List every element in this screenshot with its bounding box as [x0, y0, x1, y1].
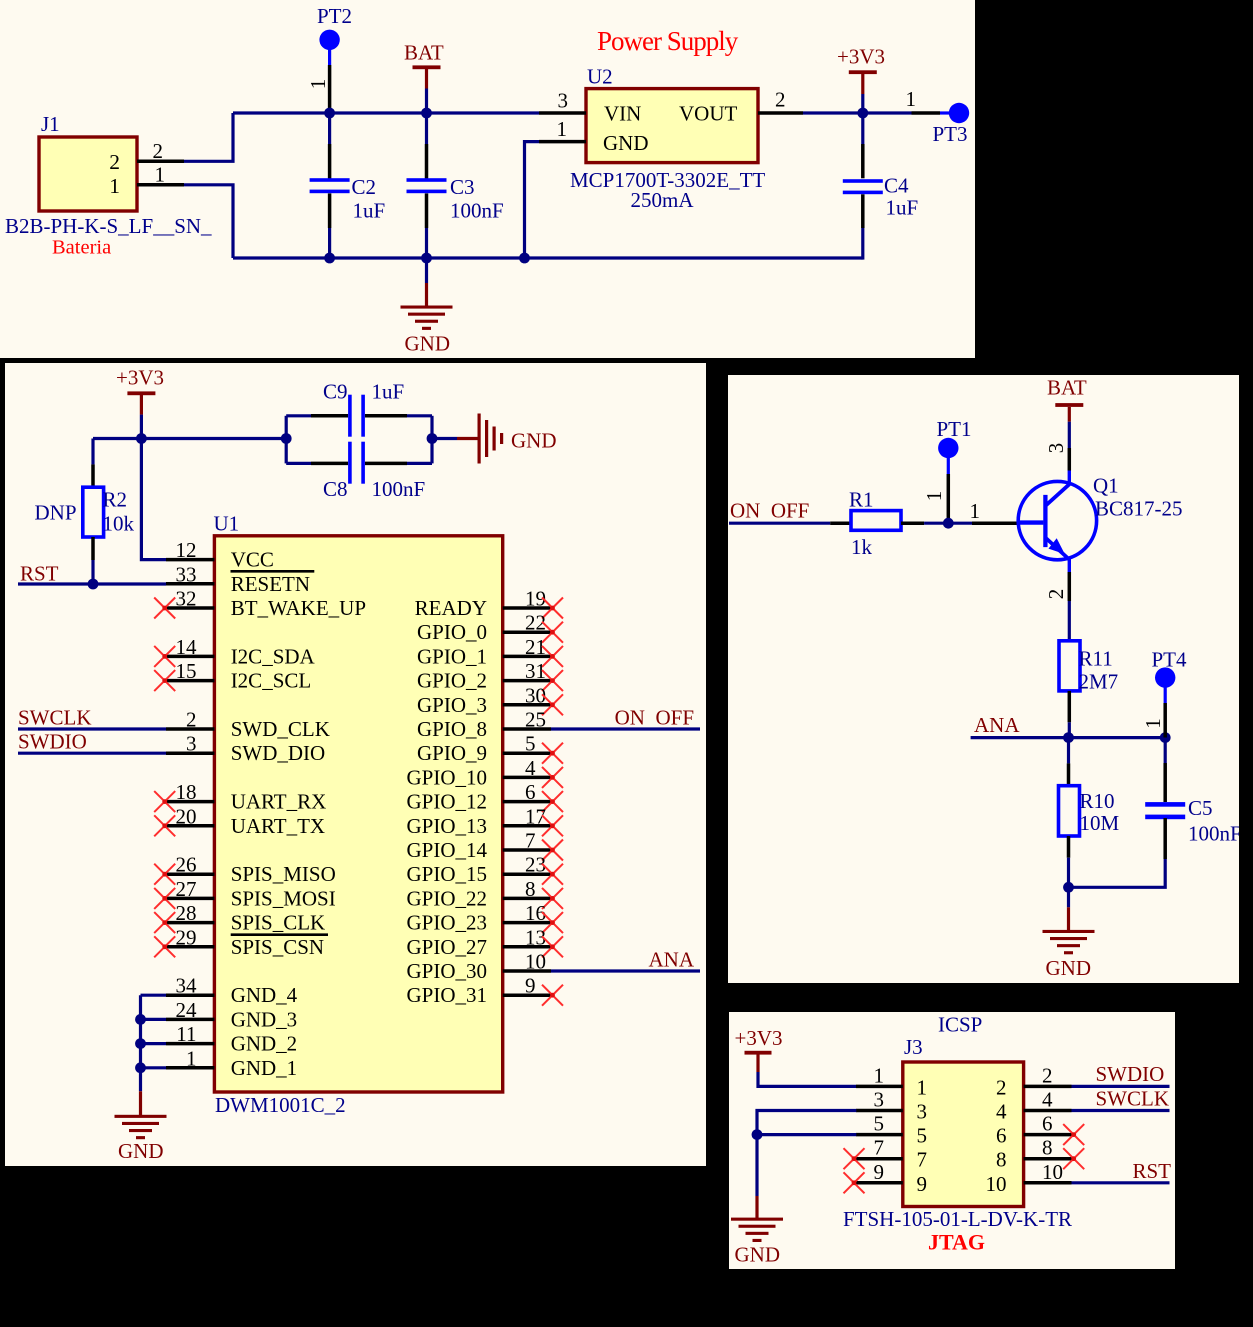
svg-text:GPIO_23: GPIO_23: [406, 911, 487, 935]
pin 30 of U1 (GPIO_3): [503, 703, 551, 707]
svg-text:4: 4: [525, 756, 536, 780]
svg-text:1: 1: [906, 87, 917, 111]
svg-text:SWCLK: SWCLK: [18, 706, 92, 730]
pin 6 of U1 (GPIO_12): [503, 800, 551, 804]
sheet: MCU section: [5, 363, 706, 1166]
wire C3 upper: [425, 113, 428, 144]
svg-text:RST: RST: [20, 562, 59, 586]
svg-text:2: 2: [1044, 589, 1068, 600]
no-connect X on pin 5: [542, 743, 563, 764]
junction GND node (panel3): [1063, 882, 1074, 893]
junction RST / R2: [88, 579, 99, 590]
svg-text:10M: 10M: [1080, 811, 1120, 835]
svg-text:C8: C8: [323, 477, 348, 501]
svg-text:6: 6: [996, 1124, 1007, 1148]
svg-text:GPIO_3: GPIO_3: [417, 693, 487, 717]
pin 15 of U1 (I2C_SCL): [166, 679, 214, 683]
svg-text:BT_WAKE_UP: BT_WAKE_UP: [231, 596, 366, 620]
svg-text:8: 8: [996, 1148, 1007, 1172]
svg-text:SWDIO: SWDIO: [18, 730, 87, 754]
svg-text:100nF: 100nF: [372, 477, 426, 501]
wire ANA (panel2): [551, 969, 700, 972]
svg-text:6: 6: [525, 780, 536, 804]
svg-text:4: 4: [1042, 1088, 1053, 1112]
pin 33 of U1 (RESETN): [166, 582, 214, 586]
svg-text:VCC: VCC: [231, 548, 274, 572]
svg-text:7: 7: [525, 829, 536, 853]
pin 2 of U2 (VOUT): [758, 111, 803, 115]
ground symbol GND (panel2 bottom): [115, 1115, 167, 1118]
svg-text:+3V3: +3V3: [837, 45, 885, 69]
svg-text:7: 7: [917, 1148, 928, 1172]
pin 23 of U1 (GPIO_15): [503, 872, 551, 876]
pin 5 of J3: [856, 1133, 903, 1137]
pin 34 of U1 (GND_4): [166, 993, 214, 997]
svg-text:GPIO_8: GPIO_8: [417, 717, 487, 741]
svg-text:U2: U2: [587, 65, 613, 89]
svg-text:Q1: Q1: [1093, 474, 1119, 498]
pin 19 of U1 (READY): [503, 606, 551, 610]
svg-text:GND_3: GND_3: [231, 1007, 298, 1031]
svg-text:10: 10: [525, 950, 546, 974]
pin 3 of J3: [856, 1109, 903, 1113]
svg-text:GPIO_27: GPIO_27: [406, 935, 487, 959]
wire SWCLK: [18, 727, 166, 730]
svg-text:UART_TX: UART_TX: [231, 814, 325, 838]
pin 31 of U1 (GPIO_2): [503, 679, 551, 683]
no-connect X on pin 8: [1063, 1148, 1084, 1169]
svg-text:2: 2: [186, 708, 197, 732]
wire R10 top: [1067, 738, 1070, 764]
svg-text:GND_4: GND_4: [231, 983, 298, 1007]
junction ANA / C5 / PT4: [1160, 732, 1171, 743]
svg-text:1uF: 1uF: [886, 196, 919, 220]
svg-text:34: 34: [176, 974, 198, 998]
svg-text:Bateria: Bateria: [52, 237, 111, 259]
wire RST (panel4): [1072, 1181, 1170, 1184]
junction GND_1: [135, 1062, 146, 1073]
svg-text:27: 27: [176, 877, 197, 901]
svg-text:1uF: 1uF: [353, 199, 386, 223]
resistor R11: [1059, 641, 1080, 691]
no-connect X on pin 19: [542, 598, 563, 619]
svg-text:2M7: 2M7: [1079, 670, 1119, 694]
no-connect X on pin 20: [154, 815, 175, 836]
junction ANA / R10: [1063, 732, 1074, 743]
wire cap block right: [430, 416, 433, 464]
svg-text:GND: GND: [1046, 956, 1092, 980]
svg-text:PT4: PT4: [1152, 648, 1188, 672]
ground symbol GND (panel4): [731, 1218, 783, 1221]
svg-text:SPIS_MISO: SPIS_MISO: [231, 862, 336, 886]
svg-text:3: 3: [874, 1088, 885, 1112]
svg-text:5: 5: [525, 732, 536, 756]
pin 7 of J3: [856, 1157, 903, 1161]
svg-text:GND: GND: [511, 429, 557, 453]
svg-text:SPIS_CSN: SPIS_CSN: [231, 935, 324, 959]
svg-text:ICSP: ICSP: [938, 1013, 982, 1037]
wire J1 pin2 to BAT rail: [184, 113, 233, 161]
no-connect X on pin 17: [542, 815, 563, 836]
pin 18 of U1 (UART_RX): [166, 800, 214, 804]
wire R11 to ANA: [1068, 691, 1072, 722]
svg-text:8: 8: [525, 877, 536, 901]
pin 29 of U1 (SPIS_CSN): [166, 945, 214, 949]
svg-text:C2: C2: [352, 175, 377, 199]
svg-text:20: 20: [176, 804, 197, 828]
svg-text:25: 25: [525, 708, 546, 732]
ground symbol GND (panel3): [1043, 930, 1095, 933]
no-connect X on pin 26: [154, 864, 175, 885]
svg-text:1: 1: [109, 174, 120, 198]
svg-text:9: 9: [525, 974, 536, 998]
wire +3V3 to pin1: [758, 1072, 856, 1086]
no-connect X on pin 21: [542, 646, 563, 667]
no-connect X on pin 15: [154, 670, 175, 691]
svg-text:11: 11: [176, 1022, 196, 1046]
no-connect X on pin 6: [542, 791, 563, 812]
wire SWDIO (panel4): [1072, 1085, 1170, 1088]
junction GND rail / C3 / ground: [421, 253, 432, 264]
pin 32 of U1 (BT_WAKE_UP): [166, 606, 214, 610]
regulator U2: [586, 89, 758, 163]
connector J1: [39, 137, 137, 211]
capacitor C4: [843, 179, 883, 183]
svg-text:GPIO_1: GPIO_1: [417, 644, 487, 668]
svg-text:GPIO_30: GPIO_30: [406, 959, 487, 983]
svg-text:GPIO_0: GPIO_0: [417, 620, 487, 644]
pin 3 of U1 (SWD_DIO): [166, 751, 214, 755]
wire C2 upper: [328, 113, 331, 144]
wire C3 lower: [425, 193, 429, 228]
pin 21 of U1 (GPIO_1): [503, 655, 551, 659]
svg-text:GPIO_12: GPIO_12: [406, 790, 487, 814]
svg-text:GPIO_13: GPIO_13: [406, 814, 487, 838]
svg-text:J3: J3: [904, 1035, 923, 1059]
pin 11 of U1 (GND_2): [166, 1042, 214, 1046]
svg-text:1: 1: [557, 117, 568, 141]
no-connect X on pin 16: [542, 912, 563, 933]
svg-text:5: 5: [917, 1124, 928, 1148]
wire base node to Q1: [948, 522, 972, 525]
wire C4 lower: [861, 194, 865, 228]
wire ground stub (panel3): [1067, 887, 1070, 907]
svg-text:C3: C3: [450, 175, 475, 199]
wire RST: [18, 582, 166, 585]
svg-text:GND_1: GND_1: [231, 1056, 298, 1080]
connector J3: [903, 1062, 1024, 1207]
svg-text:1: 1: [970, 499, 981, 523]
svg-text:26: 26: [176, 853, 197, 877]
pin 28 of U1 (SPIS_CLK): [166, 921, 214, 925]
svg-text:5: 5: [874, 1112, 885, 1136]
svg-text:READY: READY: [415, 596, 487, 620]
no-connect X on pin 6: [1063, 1124, 1084, 1145]
svg-text:GPIO_10: GPIO_10: [406, 765, 487, 789]
svg-text:9: 9: [874, 1160, 885, 1184]
pin 20 of U1 (UART_TX): [166, 824, 214, 828]
svg-text:3: 3: [1044, 443, 1068, 454]
power port BAT: [413, 65, 441, 69]
svg-text:SWCLK: SWCLK: [1096, 1087, 1170, 1111]
wire C2 lower: [328, 193, 332, 228]
no-connect X on pin 7: [844, 1148, 865, 1169]
pin 9 of J3: [856, 1181, 903, 1185]
svg-text:SWDIO: SWDIO: [1096, 1062, 1165, 1086]
svg-text:1: 1: [306, 79, 330, 90]
pin 13 of U1 (GPIO_27): [503, 945, 551, 949]
svg-text:100nF: 100nF: [1188, 822, 1242, 846]
no-connect X on pin 29: [154, 936, 175, 957]
svg-text:J1: J1: [41, 112, 60, 136]
wire to ground (panel2 top): [432, 437, 457, 440]
pin 8 of U1 (GPIO_22): [503, 897, 551, 901]
svg-text:2: 2: [775, 88, 786, 112]
svg-text:14: 14: [176, 635, 198, 659]
wire GND rail: [233, 256, 863, 259]
svg-text:JTAG: JTAG: [928, 1230, 985, 1255]
ground symbol GND (panel1): [401, 306, 453, 309]
svg-text:33: 33: [176, 562, 197, 586]
svg-text:VOUT: VOUT: [679, 102, 737, 126]
no-connect X on pin 14: [154, 646, 175, 667]
wire +3V3 horizontal: [93, 437, 286, 440]
no-connect X on pin 9: [844, 1172, 865, 1193]
junction GND rail / U2 GND: [519, 253, 530, 264]
svg-text:RESETN: RESETN: [231, 572, 310, 596]
svg-text:10k: 10k: [103, 512, 135, 536]
capacitor C5: [1145, 802, 1185, 807]
pin 10 of U1 (GPIO_30): [503, 969, 551, 973]
svg-text:2: 2: [153, 139, 164, 163]
pin 1 of J1: [137, 183, 184, 187]
junction GND branch: [752, 1129, 763, 1140]
svg-text:24: 24: [176, 998, 198, 1022]
svg-text:ON OFF: ON OFF: [615, 706, 694, 730]
svg-text:4: 4: [996, 1100, 1007, 1124]
svg-text:BC817-25: BC817-25: [1095, 497, 1183, 521]
wire VOUT to +3V3 node: [803, 111, 912, 114]
no-connect X on pin 30: [542, 694, 563, 715]
svg-text:GPIO_14: GPIO_14: [406, 838, 487, 862]
wire ANA: [971, 736, 1166, 739]
wire ground stub: [425, 258, 428, 283]
pin 1 of J3: [856, 1085, 903, 1089]
svg-text:SPIS_CLK: SPIS_CLK: [231, 911, 326, 935]
svg-text:7: 7: [874, 1136, 885, 1160]
wire R1 to base node: [901, 521, 924, 525]
svg-text:3: 3: [558, 89, 569, 113]
pin 1 of PT3: [912, 111, 941, 115]
pin 26 of U1 (SPIS_MISO): [166, 872, 214, 876]
svg-text:Power Supply: Power Supply: [597, 26, 739, 56]
svg-text:3: 3: [186, 732, 197, 756]
pin 3 of Q1 (collector): [1068, 448, 1072, 471]
svg-text:R1: R1: [849, 488, 874, 512]
no-connect X on pin 4: [542, 767, 563, 788]
svg-text:GPIO_22: GPIO_22: [406, 886, 487, 910]
wire C5 bottom: [1163, 818, 1167, 859]
wire ON_OFF to R1: [729, 522, 830, 525]
wire R2 bottom: [91, 537, 95, 560]
wire C9 branch: [286, 414, 311, 417]
svg-text:GND_2: GND_2: [231, 1032, 298, 1056]
pin 17 of U1 (GPIO_13): [503, 824, 551, 828]
pin 24 of U1 (GND_3): [166, 1018, 214, 1022]
svg-text:I2C_SCL: I2C_SCL: [231, 669, 312, 693]
svg-text:GND: GND: [735, 1243, 781, 1267]
svg-text:250mA: 250mA: [631, 188, 695, 212]
pin 12 of U1 (VCC): [166, 558, 214, 562]
pin 3 of U2 (VIN): [539, 111, 586, 115]
pin 14 of U1 (I2C_SDA): [166, 655, 214, 659]
svg-text:1: 1: [155, 163, 166, 187]
junction +3V3 node: [857, 108, 868, 119]
svg-text:C4: C4: [884, 174, 909, 198]
resistor R1: [851, 511, 901, 531]
svg-text:FTSH-105-01-L-DV-K-TR: FTSH-105-01-L-DV-K-TR: [843, 1207, 1072, 1231]
pin 7 of U1 (GPIO_14): [503, 848, 551, 852]
wire R10 bottom: [1067, 836, 1071, 858]
power port BAT (panel3): [1055, 403, 1083, 407]
wire SWDIO: [18, 752, 166, 755]
sheet: power supply section: [0, 0, 975, 358]
pin 9 of U1 (GPIO_31): [503, 993, 551, 997]
no-connect X on pin 32: [154, 598, 175, 619]
svg-text:2: 2: [109, 150, 120, 174]
wire C8 branch: [286, 462, 311, 465]
svg-text:29: 29: [176, 925, 197, 949]
no-connect X on pin 9: [542, 985, 563, 1006]
pin 25 of U1 (GPIO_8): [503, 727, 551, 731]
pin 10 of J3: [1024, 1181, 1072, 1185]
junction +3V3 / R2 / VCC: [136, 433, 147, 444]
svg-text:PT3: PT3: [933, 122, 968, 146]
pin 8 of J3: [1024, 1157, 1072, 1161]
svg-text:B2B-PH-K-S_LF__SN_: B2B-PH-K-S_LF__SN_: [5, 214, 212, 238]
svg-text:1: 1: [874, 1063, 885, 1087]
overbar RESETN: [231, 570, 315, 573]
no-connect X on pin 7: [542, 840, 563, 861]
svg-text:9: 9: [917, 1172, 928, 1196]
svg-text:RST: RST: [1133, 1159, 1172, 1183]
pin 5 of U1 (GPIO_9): [503, 751, 551, 755]
pin 4 of U1 (GPIO_10): [503, 776, 551, 780]
sheet: battery sense section: [728, 375, 1239, 983]
svg-text:GND: GND: [118, 1139, 164, 1163]
svg-text:ON OFF: ON OFF: [730, 499, 809, 523]
svg-text:32: 32: [176, 587, 197, 611]
pin 1 of Q1 (base): [972, 521, 1018, 525]
svg-text:R11: R11: [1079, 647, 1113, 671]
no-connect X on pin 22: [542, 622, 563, 643]
svg-text:12: 12: [176, 538, 197, 562]
no-connect X on pin 13: [542, 936, 563, 957]
svg-text:GPIO_15: GPIO_15: [406, 862, 487, 886]
pin 2 of U1 (SWD_CLK): [166, 727, 214, 731]
svg-text:8: 8: [1042, 1136, 1053, 1160]
junction base node: [943, 518, 954, 529]
svg-text:+3V3: +3V3: [116, 366, 164, 390]
svg-text:VIN: VIN: [604, 102, 641, 126]
svg-text:GPIO_9: GPIO_9: [417, 741, 487, 765]
svg-text:2: 2: [1042, 1063, 1053, 1087]
pin 1 of U1 (GND_1): [166, 1066, 214, 1070]
wire J1 pin1 to GND rail: [184, 185, 233, 258]
no-connect X on pin 8: [542, 888, 563, 909]
svg-text:U1: U1: [214, 512, 240, 536]
svg-text:1: 1: [186, 1046, 197, 1070]
no-connect X on pin 23: [542, 864, 563, 885]
wire +3V3 down to VCC pin: [141, 439, 166, 560]
junction GND rail / C2: [324, 253, 335, 264]
wire emitter to R11: [1068, 601, 1071, 641]
svg-text:GND: GND: [405, 332, 451, 356]
no-connect X on pin 18: [154, 791, 175, 812]
svg-text:SWD_DIO: SWD_DIO: [231, 741, 326, 765]
svg-text:R2: R2: [103, 488, 128, 512]
power port +3V3 (panel4): [745, 1051, 772, 1055]
wire C4 upper: [861, 113, 864, 144]
sheet: JTAG section: [729, 1012, 1175, 1269]
svg-text:C5: C5: [1188, 796, 1213, 820]
svg-text:GPIO_31: GPIO_31: [406, 983, 487, 1007]
wire GND bus: [139, 995, 142, 1091]
svg-text:GPIO_2: GPIO_2: [417, 669, 487, 693]
svg-text:GND: GND: [603, 131, 649, 155]
svg-text:PT2: PT2: [317, 4, 352, 28]
transistor Q1 BC817-25: [1018, 481, 1096, 559]
svg-text:100nF: 100nF: [450, 199, 504, 223]
pin 22 of U1 (GPIO_0): [503, 630, 551, 634]
test point PT3: [949, 103, 969, 123]
svg-text:1: 1: [917, 1075, 928, 1099]
pin 16 of U1 (GPIO_23): [503, 921, 551, 925]
wire GND branch (panel4): [757, 1111, 856, 1197]
svg-text:BAT: BAT: [1047, 376, 1087, 400]
svg-text:BAT: BAT: [404, 41, 444, 65]
wire R2 top: [91, 439, 94, 465]
svg-text:PT1: PT1: [937, 417, 972, 441]
capacitor C9: [348, 395, 352, 437]
svg-text:1k: 1k: [851, 535, 873, 559]
capacitor C3: [407, 178, 447, 182]
svg-text:6: 6: [1042, 1112, 1053, 1136]
pin 1 of PT4: [1163, 703, 1167, 738]
svg-text:2: 2: [996, 1075, 1007, 1099]
svg-text:1: 1: [1141, 718, 1165, 729]
no-connect X on pin 27: [154, 888, 175, 909]
svg-text:10: 10: [986, 1172, 1007, 1196]
svg-text:SWD_CLK: SWD_CLK: [231, 717, 330, 741]
junction BAT rail / PT2 / C2: [324, 108, 335, 119]
power port +3V3 (panel2): [127, 391, 155, 395]
svg-text:18: 18: [176, 780, 197, 804]
wire U2 GND to rail: [525, 142, 540, 258]
svg-text:R10: R10: [1080, 789, 1115, 813]
pin 4 of J3: [1024, 1109, 1072, 1113]
svg-text:DNP: DNP: [35, 501, 77, 525]
svg-text:DWM1001C_2: DWM1001C_2: [215, 1093, 346, 1117]
svg-text:1: 1: [922, 491, 946, 502]
svg-text:I2C_SDA: I2C_SDA: [231, 644, 316, 668]
pin 6 of J3: [1024, 1133, 1072, 1137]
pin 2 of J1: [137, 160, 184, 164]
no-connect X on pin 31: [542, 670, 563, 691]
svg-text:1uF: 1uF: [372, 380, 405, 404]
power port +3V3 (panel1): [849, 70, 877, 74]
pin 2 of Q1 (emitter): [1068, 558, 1071, 572]
